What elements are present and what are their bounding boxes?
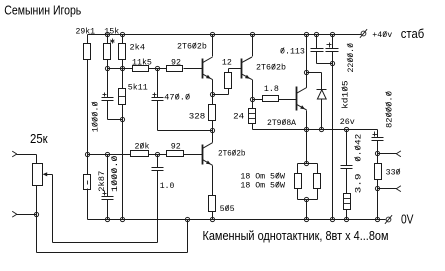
wire 5k11 top lead xyxy=(122,69,124,89)
power terminal +40v xyxy=(361,31,366,36)
svg-text:Семынин Игорь: Семынин Игорь xyxy=(4,2,81,17)
resistor 330 xyxy=(375,164,382,180)
wire diode top xyxy=(307,72,322,74)
wire row1 segment C-11k5 xyxy=(123,68,133,70)
svg-text:0V: 0V xyxy=(401,212,414,227)
wire diode bottom lead xyxy=(321,99,323,130)
transistor Q3 2T908A xyxy=(296,87,298,111)
capacitor 1000.0 upper xyxy=(102,97,114,99)
capacitor 82000.0 xyxy=(372,137,384,139)
svg-text:328: 328 xyxy=(189,112,206,121)
wire pot ground run xyxy=(37,252,188,254)
resistor 92 lower xyxy=(167,151,184,157)
wire row1 segment 11k5-E xyxy=(149,68,167,70)
wire 2k87 top lead xyxy=(87,155,89,175)
wire 18Om bottom bridge xyxy=(297,189,299,200)
wire Q2 emitter riser xyxy=(252,80,254,100)
junction 18Om bottom xyxy=(304,197,308,201)
wire cap0113 top lead xyxy=(316,35,318,49)
svg-text:2k87: 2k87 xyxy=(97,171,107,192)
wire R328 bottom lead xyxy=(212,121,214,131)
wire Q1 collector riser xyxy=(212,35,214,57)
wire cap2200 bottom lead xyxy=(332,52,334,64)
label 1000.0 upper xyxy=(92,101,101,132)
junction Q1 emitter node xyxy=(210,92,214,96)
resistor 18 Om 50W left xyxy=(295,174,302,189)
wire 15k top lead xyxy=(107,35,109,44)
label kd105 xyxy=(341,80,351,109)
resistor 5k11 xyxy=(119,89,126,105)
resistor 328 xyxy=(209,105,216,121)
terminal speaker top xyxy=(396,151,401,154)
svg-text:0.042: 0.042 xyxy=(354,134,363,162)
junction R505 at 0V xyxy=(210,217,214,221)
wire row1 segment B-C xyxy=(108,68,123,70)
wire Q2 collector riser xyxy=(252,35,254,57)
junction Q3 collector at rail xyxy=(304,32,308,36)
junction cap2200 at rail xyxy=(330,32,334,36)
svg-text:20k: 20k xyxy=(135,142,150,152)
wire 15k bottom lead xyxy=(107,60,109,69)
junction Q2 collector at rail xyxy=(250,32,254,36)
label 3.9 xyxy=(354,173,363,193)
junction row2 B xyxy=(105,152,109,156)
label 2200.0 xyxy=(347,43,356,73)
wire zobel mid lead xyxy=(346,169,348,194)
label 2k87 xyxy=(97,171,107,192)
junction 15k bottom xyxy=(105,66,109,70)
wire speaker top stub xyxy=(378,153,397,155)
svg-text:3.9: 3.9 xyxy=(354,173,363,193)
svg-text:25к: 25к xyxy=(30,131,48,146)
wire R328 top lead xyxy=(212,95,214,105)
transistor Q1 2T602b xyxy=(202,59,204,79)
svg-text:2T908A: 2T908A xyxy=(267,119,296,128)
svg-text:24: 24 xyxy=(233,112,244,121)
svg-text:2T602b: 2T602b xyxy=(256,63,286,73)
capacitor 0.042 xyxy=(341,165,353,167)
junction cap0113 at rail xyxy=(314,32,318,36)
resistor 2k87 xyxy=(84,175,91,190)
wire row2 A-B xyxy=(88,154,108,156)
resistor 20k xyxy=(131,151,149,157)
wire output rail corner down xyxy=(377,130,379,138)
resistor 3.9 xyxy=(344,194,351,210)
junction speaker bottom xyxy=(375,186,379,190)
svg-text:kd105: kd105 xyxy=(341,80,351,109)
wire 18Om riser xyxy=(306,130,308,164)
svg-text:5k11: 5k11 xyxy=(128,83,148,93)
wire 29k1 bottom to row2 xyxy=(87,60,89,155)
wire Q2emitter to R1.8 xyxy=(253,99,263,101)
svg-text:1000.0: 1000.0 xyxy=(111,155,120,192)
wire input2 xyxy=(17,214,37,216)
junction Q2 emitter node xyxy=(250,97,254,101)
wire zobel top lead xyxy=(346,130,348,166)
junction 2k4 top xyxy=(120,32,124,36)
resistor 12 xyxy=(225,73,232,89)
label 82000.0 xyxy=(385,91,394,128)
svg-text:2200.0: 2200.0 xyxy=(347,43,356,73)
wire R24 top lead xyxy=(252,100,254,109)
resistor 1.8 xyxy=(263,96,279,102)
wire output rail xyxy=(253,129,378,131)
power terminal 0V xyxy=(386,217,391,222)
junction 18Om top xyxy=(304,161,308,165)
svg-text:92: 92 xyxy=(171,143,181,152)
wire cap82000 bottom lead xyxy=(377,141,379,154)
capacitor 1000.0 lower xyxy=(102,196,114,198)
junction 5k11-cap node xyxy=(120,117,124,121)
svg-text:15k: 15k xyxy=(104,27,119,37)
label 1000.0 lower xyxy=(111,155,120,192)
transistor Q4 2T602b xyxy=(202,145,204,165)
wire +40v top rail xyxy=(88,34,362,36)
wire 5k11 bottom lead xyxy=(122,105,124,120)
wire cap2200 top lead xyxy=(332,35,334,49)
svg-text:11k5: 11k5 xyxy=(132,58,152,68)
wire feedback riser to cap1.0 xyxy=(157,171,159,243)
svg-text:92: 92 xyxy=(171,59,181,68)
junction Q3 collector node xyxy=(304,70,308,74)
junction row1 E xyxy=(155,66,159,70)
wire cap470 bottom lead xyxy=(157,101,159,131)
resistor 18 Om 50W right xyxy=(314,174,321,189)
junction cap1000l at 0V xyxy=(105,217,109,221)
terminal input 1 xyxy=(12,151,17,154)
junction output at 0V xyxy=(375,217,379,221)
capacitor 2200.0 xyxy=(326,48,339,50)
wire R330 top lead xyxy=(377,154,379,164)
svg-text:1.8: 1.8 xyxy=(264,85,279,94)
svg-text:330: 330 xyxy=(386,169,401,178)
wire 0V rail xyxy=(88,219,386,221)
svg-text:505: 505 xyxy=(220,205,235,214)
wire 18Om to 0V xyxy=(306,200,308,220)
wire Q4 emitter riser xyxy=(212,166,214,196)
wire cap1000u top lead xyxy=(107,69,109,98)
wire 18Om top bridge xyxy=(298,163,318,165)
resistor 505 xyxy=(209,196,216,212)
junction input2 pot bottom xyxy=(34,212,38,216)
wire row2 20k-E xyxy=(149,154,167,156)
svg-text:26v: 26v xyxy=(340,118,355,127)
wire Q3 emitter riser xyxy=(306,111,308,130)
wire wiper feedback bottom xyxy=(53,242,158,244)
junction 15k top xyxy=(105,32,109,36)
junction zobel at 0V xyxy=(344,217,348,221)
svg-text:2T602b: 2T602b xyxy=(218,149,246,159)
junction speaker top xyxy=(375,151,379,155)
junction ground riser at 0V xyxy=(330,217,334,221)
wire Q4 base xyxy=(184,154,203,156)
wire row2 B-20k xyxy=(108,154,131,156)
wire speaker bottom stub xyxy=(378,188,397,190)
wire wiper to riser xyxy=(47,174,53,176)
wire R12 bottom to Q1 emitter xyxy=(228,89,230,95)
wire Q1 base xyxy=(184,68,203,70)
svg-text:стаб: стаб xyxy=(401,26,424,41)
junction R328-Q4 collector node xyxy=(210,128,214,132)
junction pot ground at 0V xyxy=(185,217,189,221)
wire cap1000l top lead xyxy=(107,155,109,197)
asterisk mark xyxy=(112,39,114,44)
wire Q4 collector riser xyxy=(212,131,214,143)
junction row2 A xyxy=(85,152,89,156)
resistor 11k5 xyxy=(133,66,149,72)
wire Q1 emitter riser xyxy=(212,80,214,95)
terminal speaker bottom xyxy=(396,186,401,189)
junction Q3 emitter at output rail xyxy=(304,127,308,131)
wire cap470 to Q4 collector node xyxy=(158,130,213,132)
resistor 24 xyxy=(249,109,256,124)
svg-text:2T602b: 2T602b xyxy=(177,42,207,52)
wire pot bottom down xyxy=(36,186,38,253)
wire R24 bottom lead xyxy=(252,124,254,130)
terminal input 2 xyxy=(12,211,17,214)
wire R505 bottom lead xyxy=(212,212,214,220)
junction diode at output rail xyxy=(319,127,323,131)
capacitor 470.0 xyxy=(152,97,164,99)
svg-text:2k4: 2k4 xyxy=(130,42,146,52)
wire 29k1 top lead xyxy=(87,35,89,44)
svg-text:12: 12 xyxy=(222,58,232,67)
wire 2k4 bottom lead xyxy=(122,60,124,69)
resistor 92 upper xyxy=(167,66,183,72)
capacitor 1.0 xyxy=(152,167,164,169)
junction 2k4 bottom xyxy=(120,66,124,70)
potentiometer wiper arrow xyxy=(43,172,48,176)
wire cap0113 bottom lead xyxy=(316,52,318,64)
svg-text:1.0: 1.0 xyxy=(160,182,175,191)
wire 2k87 bottom lead xyxy=(87,189,89,220)
potentiometer 25k body xyxy=(33,164,43,186)
wire cap470 top lead xyxy=(157,69,159,98)
junction 18Om at 0V xyxy=(304,217,308,221)
junction zobel top xyxy=(344,127,348,131)
wire zobel bottom lead xyxy=(346,210,348,220)
wire 5k11 node down to 0V xyxy=(122,120,124,220)
wire input1 to pot xyxy=(17,154,37,156)
resistor 2k4 xyxy=(119,44,126,60)
capacitor 0.113 xyxy=(311,48,324,50)
wire cap1.0 top lead xyxy=(157,155,159,168)
wire 2k4 top lead xyxy=(122,35,124,44)
svg-text:82000.0: 82000.0 xyxy=(385,91,394,128)
resistor 29k1 xyxy=(84,44,91,60)
svg-text:+40v: +40v xyxy=(372,31,392,40)
wire output to 0V xyxy=(377,189,379,220)
wire R12 top to Q2 base xyxy=(228,69,230,73)
diode kd105 xyxy=(317,89,327,91)
wire R330 bottom lead xyxy=(377,180,379,189)
svg-text:29k1: 29k1 xyxy=(76,27,96,37)
junction 5k11 line at 0V xyxy=(120,217,124,221)
svg-text:1000.0: 1000.0 xyxy=(92,101,101,132)
wire R1.8 to Q3 base xyxy=(279,99,297,101)
junction ground riser top xyxy=(330,61,334,65)
junction Q1 collector at rail xyxy=(210,32,214,36)
label 0.042 xyxy=(354,134,363,162)
resistor 15k xyxy=(104,44,111,60)
wire ground riser xyxy=(332,64,334,220)
transistor Q2 2T602b xyxy=(241,59,243,79)
wire Q3 collector riser xyxy=(306,35,308,88)
wire cap1000l bottom lead xyxy=(107,200,109,220)
svg-text:Каменный однотактник, 8вт х 4.: Каменный однотактник, 8вт х 4...8ом xyxy=(203,228,389,243)
junction row2 E xyxy=(155,152,159,156)
wire cap1000u bottom lead xyxy=(107,101,109,120)
